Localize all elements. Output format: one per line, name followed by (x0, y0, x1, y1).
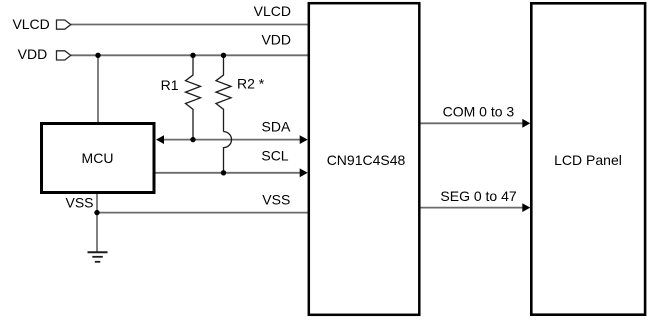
input port VDD (57, 51, 71, 60)
ground (88, 252, 108, 261)
svg-text:VDD: VDD (261, 32, 291, 48)
svg-text:R2 *: R2 * (237, 76, 265, 92)
arrow SCL into CN91C4S48 (300, 168, 308, 177)
wire VSS horizontal (97, 212, 308, 214)
junction VSS node (94, 210, 99, 215)
svg-text:VSS: VSS (262, 192, 290, 208)
wire hop R2 over SDA (224, 132, 232, 173)
wire VLCD horizontal (71, 24, 308, 26)
svg-text:R1: R1 (161, 77, 179, 93)
input port VLCD (57, 20, 71, 29)
junction VDD-MCU (95, 53, 100, 58)
resistor R1 (186, 55, 201, 139)
arrow SEG into LCD Panel (522, 203, 530, 212)
junction VDD-R1 (190, 53, 195, 58)
svg-text:SDA: SDA (262, 119, 291, 135)
wire VDD to MCU vertical (97, 55, 99, 122)
svg-text:COM 0 to 3: COM 0 to 3 (443, 103, 515, 119)
CN91C4S48 block (309, 3, 420, 315)
svg-text:CN91C4S48: CN91C4S48 (327, 152, 406, 168)
svg-text:SEG 0 to 47: SEG 0 to 47 (440, 188, 516, 204)
svg-text:VLCD: VLCD (12, 16, 49, 32)
arrow SDA into MCU (156, 135, 164, 144)
svg-text:VSS: VSS (65, 194, 93, 210)
wire SCL horizontal (156, 172, 302, 174)
arrow COM into LCD Panel (522, 119, 530, 128)
wire SDA horizontal (162, 139, 301, 141)
wire SEG bus (420, 207, 524, 209)
junction VDD-R2 (221, 53, 226, 58)
wire COM bus (420, 122, 524, 124)
wire VDD horizontal (71, 54, 308, 56)
MCU block (42, 124, 155, 193)
junction SCL-R2 (221, 170, 226, 175)
LCD Panel block (531, 3, 645, 314)
wire MCU VSS to ground vertical (96, 194, 98, 253)
svg-text:MCU: MCU (82, 150, 114, 166)
svg-text:LCD Panel: LCD Panel (554, 152, 622, 168)
svg-text:SCL: SCL (261, 148, 288, 164)
resistor R2 (216, 55, 231, 131)
junction SDA-R1 (190, 137, 195, 142)
svg-text:VDD: VDD (18, 46, 48, 62)
svg-text:VLCD: VLCD (254, 3, 291, 19)
arrow SDA into CN91C4S48 (300, 135, 308, 144)
